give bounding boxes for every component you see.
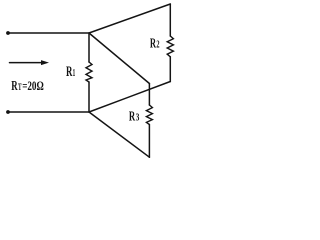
label RT=20 ohm <box>11 78 44 93</box>
terminal dot top-left <box>6 31 10 35</box>
wire diagonal B-D <box>89 33 149 84</box>
svg-text:3: 3 <box>136 112 140 123</box>
label R3 <box>129 109 140 124</box>
wire R2 top lead <box>169 4 171 36</box>
wire diagonal B-C <box>89 4 170 33</box>
resistor R2 <box>167 36 173 57</box>
wire R2 bottom lead <box>169 57 171 82</box>
svg-text:R: R <box>66 64 72 80</box>
svg-text:R: R <box>129 109 136 124</box>
svg-text:1: 1 <box>73 68 76 79</box>
wire R3 bottom lead <box>148 125 150 158</box>
wire diagonal H-F <box>89 112 149 157</box>
label R2 <box>150 37 160 52</box>
wire R1 top lead <box>88 33 90 62</box>
terminal dot bottom-left <box>6 110 10 114</box>
wire R1 bottom lead <box>88 82 90 112</box>
wire R3 top lead <box>148 84 150 106</box>
label R1 <box>66 64 75 80</box>
resistor R3 <box>146 105 152 125</box>
svg-text:2: 2 <box>156 40 159 51</box>
svg-text:=20Ω: =20Ω <box>22 78 44 93</box>
wire top A-B <box>8 32 89 34</box>
svg-text:R: R <box>11 78 18 93</box>
current arrow <box>10 60 50 65</box>
wire diagonal E-F <box>89 82 170 113</box>
resistor R1 <box>86 62 92 82</box>
wire bottom G-F <box>8 111 89 113</box>
